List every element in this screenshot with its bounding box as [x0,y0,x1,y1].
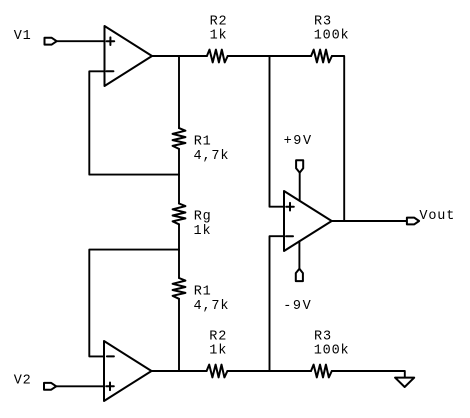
wire R2 to R3 (bottom) [227,370,311,372]
output tag Vout [407,218,419,225]
op-amp U3 [284,191,332,251]
op-amp U1 [105,26,153,86]
wire R3 (top) to U3 output node [332,56,344,221]
svg-text:100k: 100k [314,29,350,44]
svg-text:100k: 100k [314,344,350,359]
svg-text:R3: R3 [314,14,332,29]
svg-text:4,7k: 4,7k [194,299,230,314]
wire U3 - input down to node B (R2 bottom) [270,236,285,371]
svg-text:R1: R1 [194,285,212,300]
wire U3 output to Vout [332,220,407,222]
input tag V2 [44,383,56,390]
power tag +9V [296,160,303,172]
resistor R2 (bottom) [207,365,228,378]
svg-text:1k: 1k [210,29,228,44]
svg-text:V1: V1 [14,29,32,44]
wire R3 (bottom) to ground [332,371,405,378]
svg-text:-9V: -9V [283,299,312,314]
op-amp U2 [104,341,152,401]
wire V1 to U1 + input [57,40,105,42]
svg-text:R2: R2 [209,329,227,344]
input tag V1 [45,38,57,45]
wire U2 output [152,370,207,372]
svg-text:V2: V2 [14,373,32,388]
wire U1 output node down to R1 [178,56,180,128]
wire R2 to R3 (top) [228,55,311,57]
wire U1 output [152,55,207,57]
svg-text:R2: R2 [210,14,228,29]
wire Rg to R1 (lower) [178,224,180,278]
svg-text:1k: 1k [194,224,212,239]
power tag -9V [296,269,303,281]
wire R1 (lower) down to U2 output wire [178,299,180,371]
wire node A (R2 top) down to U3 + input [270,56,285,207]
svg-text:+9V: +9V [284,134,313,149]
svg-text:Rg: Rg [194,210,212,225]
pin U3 V+ [299,173,301,201]
wire U1 feedback (-) to node between R1 and Rg [89,71,179,174]
wire U2 feedback (-) to node between Rg and R1 lower [89,250,179,357]
resistor R1 (upper) [173,128,186,149]
pin U3 V- [298,241,300,269]
resistor R2 (top) [207,50,228,63]
resistor R1 (lower) [173,278,186,299]
resistor R3 (bottom) [311,365,332,378]
svg-text:4,7k: 4,7k [194,149,230,164]
resistor Rg [173,204,186,225]
svg-text:Vout: Vout [419,209,455,224]
ground [395,378,414,387]
wire V2 to U2 + input [56,385,104,387]
svg-text:R3: R3 [314,329,332,344]
resistor R3 (top) [311,50,332,63]
svg-text:R1: R1 [194,134,212,149]
svg-text:1k: 1k [209,344,227,359]
wire R1 to Rg [178,149,180,204]
